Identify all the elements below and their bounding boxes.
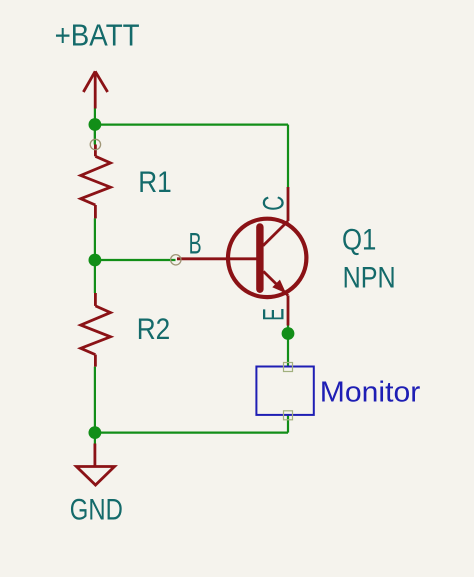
svg-text:Q1: Q1 xyxy=(342,224,376,257)
svg-text:B: B xyxy=(189,227,202,260)
svg-text:R2: R2 xyxy=(137,313,171,346)
svg-text:C: C xyxy=(258,196,291,211)
svg-text:E: E xyxy=(258,308,291,321)
svg-text:Monitor: Monitor xyxy=(320,377,421,409)
svg-text:R1: R1 xyxy=(138,166,172,199)
svg-text:GND: GND xyxy=(70,493,123,526)
svg-text:NPN: NPN xyxy=(343,261,396,294)
svg-text:+BATT: +BATT xyxy=(55,19,140,53)
